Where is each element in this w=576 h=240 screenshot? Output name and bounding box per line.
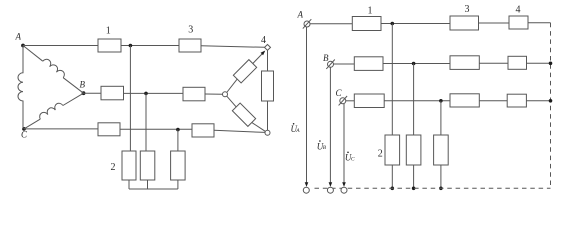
wire drop from row C junction to load 2c [177,130,179,151]
junction row C / drop to load 2c [439,99,443,103]
resistor (row B right, right circuit) [508,56,527,69]
resistor (row B, right circuit) [354,57,383,71]
node 4 diamond terminal (left circuit) [265,45,271,51]
wire node 4 to vertical resistor [267,50,269,71]
arrowhead phase C voltage [342,182,346,187]
svg-text:B: B [80,80,86,90]
svg-text:A: A [15,32,22,42]
dashed line right vertical (neutral) [550,23,552,189]
resistor 3 (row A, left circuit) [179,39,201,52]
svg-text:3: 3 [465,4,470,15]
wire row C to dashed neutral [526,100,550,102]
wire vertical resistor to bottom node [267,101,269,130]
junction row A / drop to load 2a [129,44,133,48]
resistor 2a (vertical, right circuit) [385,135,400,165]
wire drop row B junction to load 2b [413,64,415,136]
wire row B from node B to resistor [84,92,102,94]
svg-text:2: 2 [378,148,383,159]
resistor (row C mid, right circuit) [450,94,479,107]
wire row A resistor 1 to resistor 3 [381,23,450,25]
wire stub below resistor 2a [128,180,130,189]
winding A-C (left side coil) [18,46,23,129]
terminal C bottom (open circle) [341,187,347,193]
load left node terminal (open circle) [223,92,228,97]
wire row A from node A to resistor 1 [23,45,98,47]
load bottom node terminal (open circle) [265,130,270,135]
junction row B / drop to load 2b [412,62,416,66]
resistor 2c (vertical, left circuit) [171,151,186,180]
node A (left circuit) [21,44,25,48]
svg-text:3: 3 [188,24,193,35]
resistor (row C, left circuit) [98,123,120,136]
wire phase A voltage drop line [306,27,308,183]
junction row C on dashed neutral [549,99,553,103]
resistor (upper slanted, load 4 group) [233,60,256,83]
dashed line bottom bus [315,187,551,189]
node B (left circuit) [82,91,86,95]
svg-text:4: 4 [261,35,266,46]
wire left node to lower slanted resistor [227,96,237,107]
resistor (row C right, left circuit) [192,124,214,137]
svg-text:B: B [323,145,327,151]
resistor (row B, left circuit) [101,86,124,100]
resistor 3 (row A, right circuit) [450,16,479,30]
terminal B (circle with slash) [328,61,334,67]
resistor (lower slanted, load 4 group) [232,103,255,126]
junction row B on dashed neutral [549,62,553,66]
wire row A resistor 3 to resistor 4 [479,22,510,24]
wire stub below resistor 2b [147,180,149,189]
resistor 2a (vertical, left circuit) [122,151,136,180]
wire row C from node C to resistor [24,128,98,130]
terminal B bottom (open circle) [327,187,333,193]
wire drop from row B junction to load 2b [145,93,147,151]
wire stub below resistor 2c to dashed bus [440,165,442,188]
svg-text:4: 4 [516,4,521,15]
wire row C from resistor to bottom load node [214,130,265,132]
wire row A terminal to resistor 1 [310,23,352,25]
wire row B to dashed neutral [527,62,551,64]
wire row C between resistors [479,100,507,102]
svg-text:1: 1 [368,5,373,16]
wire row B between resistors [479,62,508,64]
wire row B resistor to resistor [383,63,450,65]
resistor 2b (vertical, left circuit) [140,151,155,180]
svg-text:A: A [297,10,304,20]
wire phase B voltage drop line [329,67,331,182]
svg-text:C: C [336,88,343,98]
wire bottom bus joining loads 2 [129,188,178,190]
wire row A from resistor 3 to node 4 [201,46,264,48]
resistor (row B right, left circuit) [183,87,205,101]
wire stub below resistor 2a to dashed bus [391,165,393,188]
wire stub below resistor 2c [177,180,179,189]
wire phase C voltage drop line [343,104,345,183]
resistor 1 (row A, left circuit) [98,39,121,52]
junction load 2b on dashed bus [412,187,416,191]
resistor 2c (vertical, right circuit) [434,135,449,165]
junction row B / drop to load 2b [144,92,148,96]
wire row C terminal to resistor [346,100,355,102]
svg-text:1: 1 [106,26,111,37]
wire stub below resistor 2b to dashed bus [413,165,415,188]
wire row C from resistor to resistor [120,128,192,130]
resistor (row C right, right circuit) [507,94,526,107]
svg-text:A: A [295,128,300,134]
svg-text:C: C [351,157,355,163]
wire left node to upper slanted resistor [227,79,238,92]
arrowhead phase A voltage [305,182,309,187]
wire drop row A junction to load 2a [391,24,393,136]
resistor (row B mid, right circuit) [450,56,479,70]
svg-text:C: C [21,130,28,140]
node C (left circuit) [22,127,26,131]
wire lower slanted resistor to bottom node [252,123,266,132]
resistor 1 (row A, right circuit) [352,17,381,31]
junction row C / drop to load 2c [176,128,180,132]
resistor (vertical, load 4 group) [262,71,274,101]
wire row A from resistor 1 to resistor 3 [121,45,179,47]
wire row A resistor 4 to dashed neutral corner [528,22,551,24]
winding C-B (diagonal coil) [24,119,40,129]
terminal C (circle with slash) [340,98,346,104]
winding A-B (diagonal coil) [23,46,43,62]
junction load 2a on dashed bus [391,187,395,191]
wire upper slanted resistor to node 4 with arrow [253,52,264,64]
wire row B from resistor to resistor [124,92,184,94]
wire drop from row A junction to load 2a [129,46,131,152]
svg-text:2: 2 [111,162,116,173]
resistor (row C, right circuit) [354,94,384,108]
wire row B terminal to resistor [334,63,355,65]
resistor 4 (row A, right circuit) [509,16,528,29]
arrowhead into node 4 [261,51,266,56]
arrowhead phase B voltage [329,182,333,187]
terminal A bottom (open circle) [303,187,309,193]
terminal A (circle with slash) [304,21,310,27]
wire row C resistor to resistor [384,100,450,102]
wire row B from resistor to load node [205,93,223,95]
junction load 2c on dashed bus [439,187,443,191]
wire drop row C junction to load 2c [440,101,442,135]
svg-text:B: B [323,53,329,63]
resistor 2b (vertical, right circuit) [406,135,421,165]
junction row A / drop to load 2a [391,22,395,26]
